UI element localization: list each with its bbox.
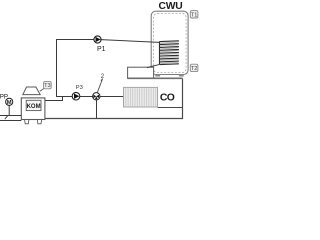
sensor T3 — [44, 81, 52, 89]
boiler leg left — [25, 120, 29, 124]
wire radiator return — [158, 107, 183, 109]
sensor T2 — [190, 64, 198, 72]
pump P3 — [72, 92, 80, 100]
boiler label box KOM — [26, 100, 41, 110]
coil heat exchanger — [160, 41, 179, 65]
svg-text:T2: T2 — [191, 66, 198, 72]
wire T3 lead — [40, 89, 44, 92]
svg-text:CO: CO — [160, 93, 175, 104]
pump P1 — [94, 36, 101, 43]
tank CWU body — [151, 11, 188, 74]
boiler KOM hood — [23, 87, 40, 95]
svg-text:CWU: CWU — [159, 1, 183, 12]
wire boiler outlet stub — [45, 97, 63, 101]
wire CWU supply with riser — [57, 40, 102, 97]
motor M — [6, 98, 13, 106]
svg-text:P3: P3 — [76, 85, 83, 91]
tank foot left — [155, 74, 160, 76]
feeder diagonal tick — [5, 116, 8, 120]
svg-text:PP: PP — [0, 93, 8, 100]
feeder PP upper line — [0, 115, 21, 117]
svg-text:P1: P1 — [97, 46, 106, 53]
boiler body — [21, 98, 45, 120]
box heat-exchanger housing — [128, 67, 154, 78]
svg-text:T1: T1 — [191, 12, 198, 18]
sensor T1 — [190, 11, 198, 19]
wire valve drop — [96, 100, 98, 119]
valve lever — [97, 79, 102, 93]
motor M stub — [8, 105, 10, 115]
svg-text:M: M — [7, 100, 12, 106]
tank foot right — [179, 74, 184, 76]
boiler leg right — [37, 120, 41, 124]
wire sloped pipe to coil — [101, 40, 160, 43]
svg-text:KOM: KOM — [27, 104, 41, 110]
radiator CO — [124, 87, 158, 107]
wire coil outlet diagonal — [147, 64, 160, 67]
valve 3-way — [93, 93, 100, 100]
svg-text:T3: T3 — [44, 83, 51, 89]
wire CO supply line — [56, 96, 124, 98]
wire return pipe under tank — [128, 77, 183, 79]
feeder PP lower line — [0, 120, 21, 122]
